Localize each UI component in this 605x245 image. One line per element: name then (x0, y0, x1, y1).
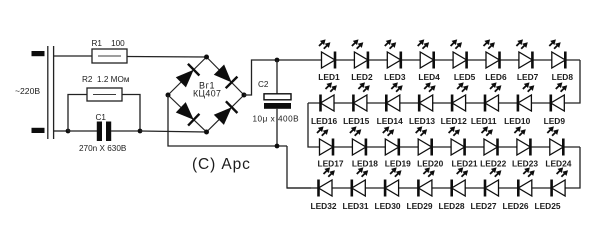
svg-text:LED14: LED14 (377, 116, 403, 126)
svg-text:LED13: LED13 (409, 116, 435, 126)
LED LED22 (480, 126, 506, 168)
wire C2 top lead (276, 60, 278, 94)
LED LED31 (342, 167, 368, 211)
LED LED13 (409, 82, 436, 125)
wire R2 right leg (122, 95, 140, 132)
svg-text:КЦ407: КЦ407 (193, 89, 221, 99)
node C2 bottom (275, 144, 280, 149)
svg-text:LED18: LED18 (352, 158, 378, 168)
svg-text:R2 1.2 МОм: R2 1.2 МОм (82, 75, 130, 84)
svg-text:LED22: LED22 (480, 158, 506, 168)
LED LED11 (471, 82, 502, 125)
node bridge top (204, 55, 209, 60)
svg-text:LED12: LED12 (441, 116, 467, 126)
diode D3 bottom-left (176, 102, 200, 126)
node bridge bottom (204, 130, 209, 135)
terminal top (mains pin) (32, 51, 45, 56)
wire node B to bridge bottom vertex (140, 131, 207, 132)
svg-text:LED16: LED16 (311, 116, 337, 126)
svg-text:C2: C2 (258, 80, 269, 89)
diode D4 bottom-right (214, 101, 238, 125)
LED LED19 (383, 126, 411, 168)
wire node A to C1 (68, 130, 97, 132)
svg-text:LED3: LED3 (384, 72, 406, 82)
LED LED29 (406, 167, 434, 211)
capacitor C2 (electrolytic) (264, 94, 291, 109)
svg-text:LED27: LED27 (470, 201, 496, 211)
wire row1 rail (DC+) (322, 59, 580, 61)
LED LED28 (438, 167, 468, 211)
wire C1 to node B (111, 130, 140, 132)
LED LED6 (484, 39, 507, 82)
LED LED4 (418, 39, 440, 82)
svg-text:LED30: LED30 (374, 201, 400, 211)
LED LED23 (512, 126, 538, 168)
svg-text:LED20: LED20 (417, 158, 443, 168)
svg-text:LED29: LED29 (406, 201, 432, 211)
svg-text:LED6: LED6 (485, 72, 507, 82)
LED LED8 (549, 39, 573, 82)
wire top terminal to R1 (54, 55, 92, 57)
wire C2 bottom lead (276, 109, 278, 146)
svg-text:LED2: LED2 (351, 72, 373, 82)
wire left connector row2 to row3 (308, 103, 580, 147)
LED LED21 (449, 126, 478, 168)
svg-text:LED24: LED24 (545, 158, 571, 168)
resistor R2 (87, 88, 122, 101)
node A (left junction of R2/C1) (66, 129, 71, 134)
svg-text:LED26: LED26 (502, 201, 528, 211)
svg-text:LED8: LED8 (552, 72, 574, 82)
svg-text:LED19: LED19 (385, 158, 411, 168)
svg-text:10μ х 400В: 10μ х 400В (253, 115, 300, 124)
svg-text:270n Х 630В: 270n Х 630В (79, 144, 127, 153)
svg-text:LED28: LED28 (438, 201, 464, 211)
wire right connector row3 to row4 (287, 147, 580, 188)
LED LED18 (350, 126, 378, 168)
LED LED1 (318, 39, 340, 82)
wire right connector row1 to row2 (308, 60, 580, 103)
resistor R1 (92, 49, 127, 63)
svg-text:LED15: LED15 (343, 116, 369, 126)
wire DC+ from bridge right vertex to top rail (244, 60, 322, 95)
LED LED12 (441, 82, 469, 125)
capacitor C1 (97, 122, 111, 142)
svg-text:(С) Арс: (С) Арс (192, 156, 251, 173)
bridge rectifier U1 frame (168, 57, 244, 132)
diode D2 top-right (214, 65, 238, 89)
LED LED32 (310, 167, 336, 211)
svg-text:LED4: LED4 (418, 72, 440, 82)
LED LED26 (502, 167, 534, 211)
wire R2 left leg (68, 95, 87, 132)
diode D1 top-left (176, 64, 200, 88)
LED LED7 (516, 39, 538, 82)
svg-text:LED31: LED31 (342, 201, 368, 211)
LED LED30 (374, 167, 401, 211)
LED LED2 (351, 39, 373, 82)
wire DC- from bridge left vertex along bottom (168, 95, 287, 146)
svg-text:LED21: LED21 (451, 158, 477, 168)
LED LED14 (377, 82, 403, 125)
svg-text:C1: C1 (96, 113, 107, 122)
svg-text:LED23: LED23 (512, 158, 538, 168)
connector line left (47, 46, 49, 139)
LED LED27 (470, 167, 501, 211)
svg-text:R1 100: R1 100 (92, 39, 126, 48)
svg-text:LED10: LED10 (504, 116, 530, 126)
terminal bottom (mains pin) (32, 128, 45, 133)
node C2 top (275, 58, 280, 63)
connector line right (53, 46, 55, 139)
node bridge right (242, 93, 247, 98)
svg-text:LED32: LED32 (310, 201, 336, 211)
LED LED16 (311, 82, 337, 125)
svg-text:LED1: LED1 (318, 72, 340, 82)
LED LED17 (317, 126, 344, 168)
node bridge left (166, 93, 171, 98)
wire bottom terminal to node A (54, 130, 68, 132)
svg-text:~220В: ~220В (15, 86, 40, 96)
node B (right junction of R2/C1) (138, 129, 143, 134)
LED LED9 (544, 82, 568, 125)
LED LED25 (534, 167, 568, 211)
svg-text:LED25: LED25 (534, 201, 560, 211)
LED LED15 (343, 82, 370, 125)
svg-text:LED7: LED7 (517, 72, 539, 82)
svg-text:LED17: LED17 (317, 158, 343, 168)
svg-text:LED9: LED9 (544, 116, 566, 126)
wire R1 to bridge top vertex (127, 56, 207, 59)
LED LED5 (451, 39, 476, 82)
LED LED3 (384, 39, 406, 82)
wire DC- drop to row 4 (287, 146, 311, 188)
LED LED20 (416, 126, 444, 168)
LED LED10 (504, 82, 534, 125)
LED LED24 (545, 126, 571, 168)
svg-text:LED5: LED5 (454, 72, 476, 82)
svg-text:LED11: LED11 (471, 116, 497, 126)
